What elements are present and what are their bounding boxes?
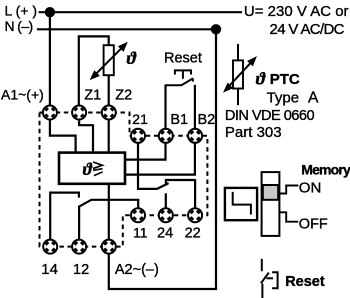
wire A1 to U1 pin1	[50, 113, 76, 153]
svg-text:B1: B1	[170, 112, 188, 128]
terminal 14	[43, 240, 57, 254]
wire U1 out2 to B2	[125, 85, 195, 175]
svg-text:Reset: Reset	[164, 51, 202, 67]
wire 12 riser	[78, 206, 80, 247]
svg-text:22: 22	[185, 226, 201, 242]
svg-text:B2: B2	[198, 112, 216, 128]
wire Z1 to U1 pin2	[79, 113, 93, 153]
wire L supply line	[39, 11, 242, 13]
wire A2 return to N	[109, 29, 216, 289]
memory latch function icon	[225, 188, 257, 220]
switch blade 12 to 11	[79, 200, 139, 215]
terminal B2	[188, 129, 202, 143]
svg-text:12: 12	[73, 262, 89, 278]
svg-text:N (–): N (–)	[5, 18, 33, 34]
svg-text:Type: Type	[267, 90, 300, 107]
svg-text:Z2: Z2	[115, 88, 132, 104]
svg-text:U= 230 V AC or: U= 230 V AC or	[244, 3, 349, 20]
wire 21 to contact blade	[138, 136, 169, 189]
switch Reset manual bottom	[261, 259, 278, 298]
memory slide switch	[262, 172, 299, 236]
svg-text:ϑ: ϑ	[127, 48, 138, 68]
comparator box U1	[59, 153, 125, 184]
wire 22 branch with fixed contact	[166, 180, 195, 215]
terminal Z1	[72, 106, 86, 120]
svg-text:Z1: Z1	[84, 88, 101, 104]
svg-text:21: 21	[132, 111, 148, 127]
terminal 12	[72, 240, 86, 254]
svg-text:Memory: Memory	[301, 162, 350, 178]
svg-text:A2~(–): A2~(–)	[115, 262, 159, 278]
wire OFF link	[279, 212, 298, 221]
svg-text:A1~(+): A1~(+)	[1, 86, 44, 102]
terminal 11	[131, 208, 145, 222]
terminal 24	[159, 208, 173, 222]
svg-text:11: 11	[133, 225, 148, 241]
svg-text:A: A	[308, 90, 319, 107]
svg-text:24 V AC/DC: 24 V AC/DC	[270, 21, 345, 38]
thermistor sensor arrow	[90, 42, 128, 80]
wire Z2 to U1 pin3	[108, 113, 110, 153]
node N junction dot	[211, 24, 221, 34]
wire ON link	[279, 186, 298, 194]
thermistor sensor Z1-Z2 body	[104, 45, 114, 75]
terminal A1	[43, 106, 57, 120]
svg-text:OFF: OFF	[299, 217, 328, 233]
wire U1 out1 to B1	[125, 85, 166, 159]
svg-text:24: 24	[157, 226, 173, 242]
terminal Z2	[102, 106, 116, 120]
wire N supply line	[37, 28, 216, 30]
wire U1 bottom to A2	[108, 184, 110, 247]
svg-text:L (+ ): L (+ )	[5, 2, 38, 18]
wire L to terminal A1	[49, 12, 51, 112]
node L junction dot	[45, 7, 55, 17]
svg-text:PTC: PTC	[270, 71, 300, 88]
terminal 21	[131, 129, 145, 143]
svg-text:ON: ON	[299, 180, 322, 197]
dashed device outline	[40, 113, 208, 247]
switch Reset pushbutton B1-B2	[165, 70, 193, 85]
wire 14 branch with fixed contact	[50, 193, 79, 247]
svg-text:Part 303: Part 303	[225, 124, 282, 141]
terminal A2	[102, 240, 116, 254]
wire sensor to Z2	[108, 75, 110, 112]
thermistor PTC annotation symbol	[223, 44, 257, 105]
svg-text:ϑ: ϑ	[256, 69, 267, 89]
terminal B1	[159, 129, 173, 143]
symbol greater-less in U1	[93, 162, 103, 176]
svg-text:14: 14	[41, 261, 58, 278]
wire 24 branch	[165, 193, 167, 215]
terminal 22	[188, 208, 202, 222]
svg-text:DIN VDE 0660: DIN VDE 0660	[225, 108, 315, 124]
svg-text:Reset: Reset	[285, 274, 325, 290]
wire Z1 riser to sensor	[79, 36, 109, 112]
svg-text:ϑ: ϑ	[83, 159, 93, 179]
